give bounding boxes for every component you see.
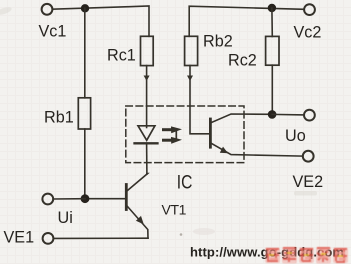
wire joining light arrows <box>175 131 177 138</box>
arrowhead current into base wire <box>187 76 193 82</box>
light arrow 2 <box>164 137 183 144</box>
svg-text:Uo: Uo <box>285 127 306 145</box>
svg-text:Ui: Ui <box>58 209 73 227</box>
svg-text:Vc2: Vc2 <box>294 24 322 42</box>
wire LED cathode down to VT1 collector <box>146 143 148 174</box>
watermark red characters <box>265 247 348 264</box>
wire emitter line to VE1 <box>53 237 148 239</box>
wire J2 down to Rc2 <box>271 8 273 36</box>
wire Rc1 down to LED anode <box>146 66 148 128</box>
VT1 emitter <box>128 207 149 239</box>
phototransistor of IC : base bar <box>209 119 212 147</box>
LED cathode bar <box>135 142 158 144</box>
terminal Vc2 <box>304 4 315 15</box>
wire base VT1 from node B <box>85 198 125 200</box>
svg-text:Vc1: Vc1 <box>39 23 67 41</box>
VT1 emitter arrowhead <box>136 216 144 225</box>
light arrow 1 <box>164 126 183 133</box>
phototransistor emitter <box>212 144 303 157</box>
wire J1 down to Rb1 <box>84 8 86 98</box>
wire right rail corner down to Rb2 <box>189 6 304 36</box>
resistor Rb2 <box>185 36 198 65</box>
terminal Ui <box>42 194 53 205</box>
svg-text:VT1: VT1 <box>162 202 187 218</box>
phototransistor emitter arrowhead <box>220 147 228 154</box>
optocoupler IC dashed box <box>126 106 244 163</box>
svg-text:Rc2: Rc2 <box>228 52 257 70</box>
resistor Rb1 <box>78 98 90 129</box>
node junction J3 <box>268 110 277 119</box>
svg-text:VE1: VE1 <box>4 229 35 247</box>
terminal VE1 <box>43 233 54 244</box>
wire Rb2 down to base <box>190 66 209 134</box>
scan speck left of url <box>180 233 183 236</box>
wire Rc2 down to node J3 <box>271 65 273 114</box>
wire J3 to Uo <box>272 113 304 116</box>
resistor Rc2 <box>266 36 279 65</box>
transistor VT1 base bar <box>125 185 128 210</box>
LED diode of IC <box>138 126 155 141</box>
node junction J1 <box>81 4 89 12</box>
scan smudge above VE2 <box>294 191 317 196</box>
arrowhead current into LED <box>144 76 150 82</box>
node junction J2 <box>268 4 276 12</box>
wire top-left rail <box>53 6 150 36</box>
svg-text:Rb2: Rb2 <box>203 33 233 51</box>
terminal Vc1 <box>42 4 53 15</box>
node junction B <box>81 194 90 203</box>
scan smudge above url <box>193 228 215 235</box>
svg-text:Rb1: Rb1 <box>44 109 74 127</box>
scan smudge top-left <box>0 6 13 17</box>
svg-text:VE2: VE2 <box>293 173 324 191</box>
svg-text:Rc1: Rc1 <box>107 47 136 65</box>
wire Ui to node B <box>53 198 85 200</box>
VT1 collector <box>128 174 148 191</box>
phototransistor collector <box>212 114 272 123</box>
resistor Rc1 <box>141 36 154 65</box>
wire Rb1 to node B <box>84 129 86 199</box>
terminal Uo <box>304 110 315 121</box>
svg-text:IC: IC <box>177 171 193 193</box>
terminal VE2 <box>303 151 314 162</box>
